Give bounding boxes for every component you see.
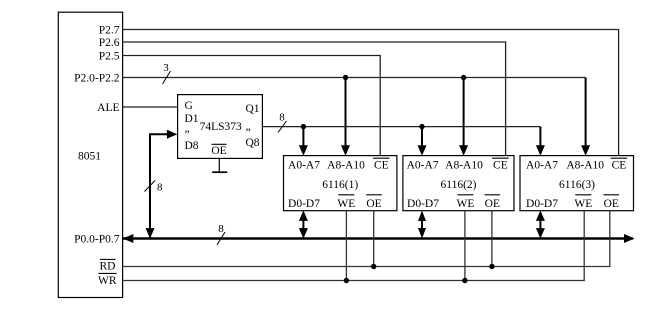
- svg-text:WR: WR: [98, 275, 117, 287]
- svg-text:CE: CE: [493, 160, 508, 172]
- svg-text:74LS373: 74LS373: [200, 121, 242, 133]
- wire P2.5 to CE of 6116(1): [123, 56, 381, 156]
- MCU 8051 box: [58, 12, 122, 297]
- svg-text:CE: CE: [612, 160, 627, 172]
- svg-text:A8-A10: A8-A10: [327, 160, 365, 172]
- wire D0-D7 of 6116(3) to bus: [536, 210, 545, 238]
- svg-text:8: 8: [279, 111, 285, 123]
- junction dot A0-A7 6116(1): [301, 124, 306, 129]
- svg-text:„: „: [185, 123, 190, 135]
- pin P2.0-P2.2 label: [74, 72, 120, 84]
- wire Q outputs A0-A7 horizontal: [263, 126, 541, 128]
- pin D8 label: [185, 140, 199, 152]
- pin P2.6 label: [99, 37, 120, 49]
- pin P0.0-P0.7 label: [74, 233, 120, 245]
- pin WR label: [98, 273, 117, 287]
- pin A8-A10 of 6116(3): [566, 160, 604, 172]
- svg-text:RD: RD: [100, 260, 116, 272]
- svg-text:A8-A10: A8-A10: [566, 160, 604, 172]
- pin D0-D7 of 6116(3): [526, 198, 558, 210]
- bus-width slash 8 on Q bus: [278, 111, 287, 132]
- latch 74LS373 box: [178, 95, 263, 159]
- svg-text:„: „: [246, 121, 251, 133]
- RAM 6116(2) box: [403, 156, 514, 211]
- junction dot A0-A7 6116(2): [419, 124, 424, 129]
- pin A0-A7 of 6116(2): [407, 160, 439, 172]
- svg-text:D8: D8: [185, 140, 199, 152]
- svg-text:OE: OE: [211, 145, 226, 157]
- pin CE of 6116(1): [373, 158, 390, 172]
- wire D0-D7 of 6116(1) to bus: [299, 210, 308, 238]
- wire A0-A7 drop to 6116(3): [536, 127, 545, 156]
- RAM 6116(1) box: [284, 156, 397, 211]
- svg-text:CE: CE: [374, 160, 389, 172]
- junction dot OE 6116(1) on RD: [371, 264, 376, 269]
- ellipsis D pins: [185, 123, 190, 135]
- svg-text:A8-A10: A8-A10: [445, 160, 483, 172]
- svg-text:WE: WE: [337, 198, 355, 210]
- bus-width slash 3 on P2.0-P2.2: [163, 62, 171, 84]
- pin CE of 6116(2): [492, 158, 509, 172]
- pin OE label of latch: [211, 144, 226, 157]
- svg-text:Q8: Q8: [246, 137, 260, 149]
- svg-text:P0.0-P0.7: P0.0-P0.7: [74, 233, 120, 245]
- svg-text:8051: 8051: [78, 150, 101, 162]
- svg-text:8: 8: [157, 182, 163, 194]
- wire OE 6116(1) drop: [373, 211, 375, 267]
- pin WE of 6116(3): [574, 195, 592, 210]
- pin OE of 6116(2): [485, 195, 501, 210]
- svg-text:WE: WE: [457, 198, 475, 210]
- bus-width slash 8 on D vertical: [145, 181, 164, 194]
- pin RD label: [100, 259, 116, 272]
- pin D1 label: [185, 113, 199, 125]
- svg-text:3: 3: [163, 62, 169, 74]
- wire P2.6 to CE of 6116(2): [123, 42, 506, 155]
- wire WE 6116(2) drop: [464, 211, 466, 281]
- pin P2.7 label: [99, 24, 120, 36]
- wire ALE to G: [123, 106, 178, 108]
- wire A8-A10 drop to 6116(1): [341, 78, 350, 156]
- pin A8-A10 of 6116(2): [445, 160, 483, 172]
- wire WE 6116(1) drop: [345, 211, 347, 281]
- RAM 6116(3) box: [520, 156, 634, 211]
- junction dot A8-A10 6116(2): [461, 75, 466, 80]
- svg-text:G: G: [185, 100, 193, 112]
- pin Q1 label: [246, 103, 260, 115]
- bus P0 data bus: [123, 234, 635, 243]
- svg-text:D0-D7: D0-D7: [288, 198, 320, 210]
- junction dot OE 6116(2) on RD: [489, 264, 494, 269]
- wire WR to WE pins: [123, 211, 585, 281]
- pin D0-D7 of 6116(2): [407, 198, 439, 210]
- pin OE of 6116(1): [366, 195, 382, 210]
- junction dot WE 6116(2) on WR: [462, 278, 467, 283]
- svg-text:A0-A7: A0-A7: [526, 160, 558, 172]
- wire RD to OE pins: [123, 211, 610, 267]
- pin CE of 6116(3): [611, 158, 628, 172]
- svg-text:OE: OE: [485, 198, 500, 210]
- wire A8-A10 drop to 6116(3): [581, 78, 590, 156]
- wire A0-A7 drop to 6116(2): [418, 127, 427, 156]
- wire P2.0-P2.2 horizontal: [123, 77, 586, 79]
- svg-text:P2.5: P2.5: [99, 50, 120, 62]
- junction dot A8-A10 6116(1): [343, 75, 348, 80]
- svg-text:ALE: ALE: [97, 102, 119, 114]
- wire P0 to latch D inputs: [146, 130, 178, 239]
- svg-text:P2.7: P2.7: [99, 24, 120, 36]
- svg-text:OE: OE: [604, 198, 619, 210]
- svg-text:A0-A7: A0-A7: [407, 160, 439, 172]
- ground of latch OE: [212, 158, 227, 172]
- wire A8-A10 drop to 6116(2): [459, 78, 468, 156]
- svg-text:Q1: Q1: [246, 103, 260, 115]
- pin OE of 6116(3): [604, 195, 620, 210]
- wire P2.7 to CE of 6116(3): [123, 30, 619, 156]
- bus-width slash 8 on P0 bus: [217, 223, 225, 245]
- pin G label: [185, 100, 193, 112]
- svg-text:D0-D7: D0-D7: [526, 198, 558, 210]
- svg-text:A0-A7: A0-A7: [288, 160, 320, 172]
- pin WE of 6116(1): [337, 195, 355, 210]
- ellipsis Q pins: [246, 121, 251, 133]
- svg-text:D0-D7: D0-D7: [407, 198, 439, 210]
- junction dot WE 6116(1) on WR: [344, 278, 349, 283]
- svg-text:8: 8: [218, 223, 224, 235]
- pin A0-A7 of 6116(3): [526, 160, 558, 172]
- pin A8-A10 of 6116(1): [327, 160, 365, 172]
- pin A0-A7 of 6116(1): [288, 160, 320, 172]
- svg-text:P2.0-P2.2: P2.0-P2.2: [74, 72, 120, 84]
- wire D0-D7 of 6116(2) to bus: [418, 211, 426, 239]
- svg-text:6116(3): 6116(3): [559, 179, 595, 191]
- pin P2.5 label: [99, 50, 120, 62]
- svg-text:P2.6: P2.6: [99, 37, 120, 49]
- svg-text:6116(1): 6116(1): [322, 179, 358, 191]
- svg-text:OE: OE: [366, 198, 381, 210]
- wire OE 6116(2) drop: [491, 211, 493, 267]
- pin Q8 label: [246, 137, 260, 149]
- svg-text:6116(2): 6116(2): [441, 179, 477, 191]
- wire A0-A7 drop to 6116(1): [299, 127, 308, 156]
- svg-text:WE: WE: [574, 198, 592, 210]
- pin D0-D7 of 6116(1): [288, 198, 320, 210]
- pin ALE label: [97, 102, 119, 114]
- pin WE of 6116(2): [457, 195, 475, 210]
